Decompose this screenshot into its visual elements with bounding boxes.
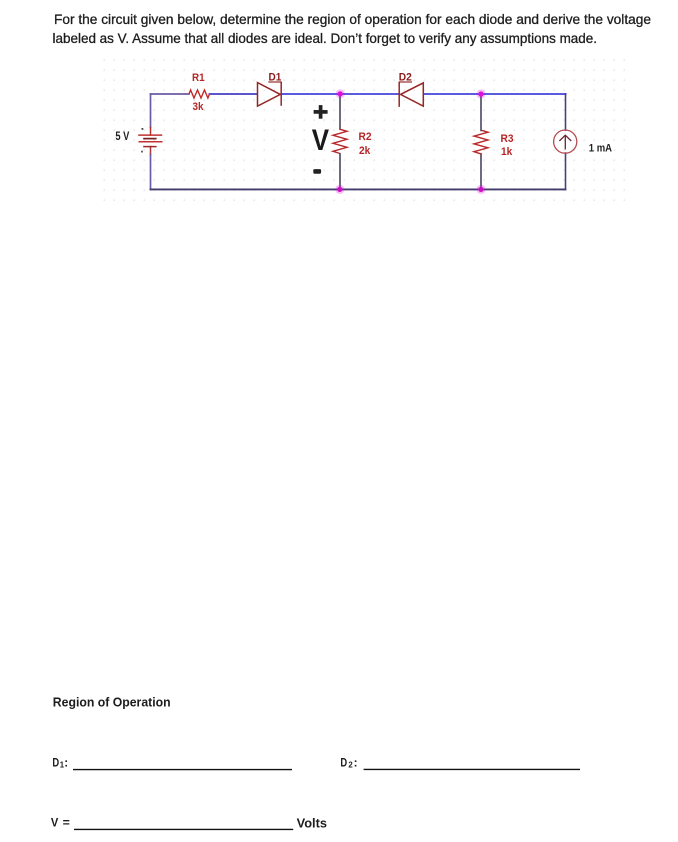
svg-text:R3: R3 (501, 133, 514, 145)
svg-text:labeled as V. Assume that all: labeled as V. Assume that all diodes are… (53, 31, 598, 46)
svg-text:D: D (340, 756, 347, 769)
svg-text:R2: R2 (359, 131, 372, 143)
svg-text:=: = (63, 816, 70, 829)
svg-text:D: D (52, 756, 59, 769)
svg-text:R1: R1 (192, 72, 205, 84)
svg-text:Region of Operation: Region of Operation (53, 695, 171, 710)
svg-text::: : (354, 756, 358, 769)
svg-text::: : (64, 756, 68, 769)
svg-text:Volts: Volts (297, 815, 327, 830)
svg-text:V: V (312, 124, 330, 157)
svg-text:1k: 1k (501, 146, 513, 158)
svg-text:1 mA: 1 mA (589, 142, 612, 154)
svg-text:2k: 2k (359, 145, 371, 157)
svg-text:5 V: 5 V (115, 129, 129, 143)
svg-text:For the circuit given below, d: For the circuit given below, determine t… (54, 12, 651, 27)
svg-text:3k: 3k (193, 101, 205, 113)
svg-text:V: V (51, 816, 59, 829)
